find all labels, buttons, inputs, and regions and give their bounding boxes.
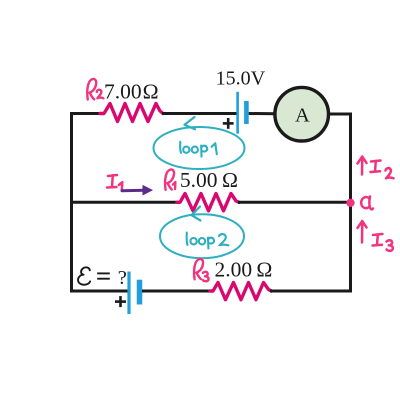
current arrow I3 (pink up arrow) [358, 221, 367, 243]
battery 15.0V long plate [236, 92, 239, 134]
node a dot [346, 199, 354, 207]
purple current arrow I1 [122, 186, 152, 194]
plus sign top battery [223, 118, 234, 129]
loop 1 text [180, 142, 217, 157]
wire right vertical [349, 113, 352, 293]
label I1 (pink) [107, 175, 122, 191]
label R3 (pink handwritten) [194, 259, 208, 281]
wire bottom mid [142, 290, 211, 293]
label R1 (pink handwritten) [165, 169, 175, 189]
loop 2 ellipse [160, 214, 244, 258]
wire left vertical [70, 112, 73, 293]
wire bottom right [270, 290, 352, 293]
svg-text:?: ? [118, 267, 127, 289]
loop 2 arrowhead [192, 207, 201, 221]
current arrow I2 (pink up arrow) [358, 157, 367, 175]
label I3 (pink) [373, 234, 393, 251]
battery 15.0V short plate [244, 101, 249, 124]
svg-text:Ω: Ω [143, 80, 159, 104]
wire middle left [70, 201, 178, 204]
svg-text:15.0: 15.0 [216, 68, 251, 90]
battery EMF short plate [137, 280, 143, 305]
label script E = ? [78, 267, 90, 284]
ammeter A circle [275, 87, 329, 141]
resistor R1 [177, 194, 239, 211]
label I2 (pink) [371, 161, 394, 179]
wire battery to ammeter [249, 112, 276, 115]
label R2 (pink handwritten R) [87, 79, 103, 100]
svg-text:5.00: 5.00 [180, 168, 218, 192]
resistor R3 [210, 283, 272, 300]
wire ammeter to right corner [327, 113, 352, 116]
loop 2 text [187, 233, 229, 249]
label a (pink) [361, 197, 373, 210]
svg-text:7.00: 7.00 [104, 80, 142, 104]
battery EMF long plate [127, 272, 130, 315]
resistor R2 [100, 104, 163, 122]
equals sign [97, 273, 110, 278]
svg-text:V: V [251, 68, 266, 90]
svg-text:Ω: Ω [256, 258, 272, 282]
wire top segment mid [162, 112, 237, 115]
svg-text:Ω: Ω [222, 168, 238, 192]
svg-text:2.00: 2.00 [215, 258, 253, 282]
loop 1 arrowhead [185, 117, 196, 129]
wire top segment left [70, 112, 101, 115]
wire middle right [238, 201, 351, 204]
svg-text:A: A [295, 104, 310, 126]
loop 1 ellipse [154, 127, 245, 169]
plus sign bottom battery [115, 296, 126, 307]
wire bottom left [70, 290, 128, 293]
